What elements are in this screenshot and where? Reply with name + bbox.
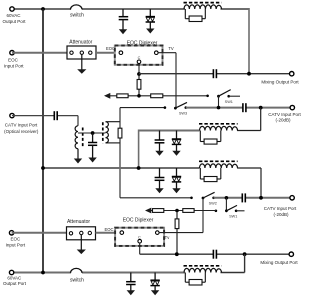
ground G7: [155, 188, 163, 193]
port P1 60VAC Output Port: [2, 7, 26, 24]
attenuator A2 bottom: [67, 219, 96, 240]
switch S5 top arc: [70, 5, 84, 19]
svg-text:SW3: SW3: [179, 111, 187, 115]
diplexer U2 EOC Diplexer bottom: [115, 218, 164, 246]
svg-text:switch: switch: [70, 277, 84, 283]
capacitor C8 series CATV bottom: [242, 193, 245, 202]
node J13 junction mixing bottom: [175, 252, 179, 256]
wire EOC coupling row top left: [120, 107, 165, 109]
inductor L3 coupling winding with core: [103, 122, 120, 144]
svg-text:Mixing Output Port: Mixing Output Port: [261, 80, 299, 85]
switch S6 bottom arc: [70, 268, 84, 283]
resistor R5 across coupling winding: [118, 128, 122, 138]
svg-text:60VAC: 60VAC: [7, 275, 22, 280]
wire TV port to SW3: [158, 53, 176, 108]
arrow attenuator down arrow bottom: [77, 250, 86, 255]
ground G9: [127, 290, 135, 295]
node J15 junction 60VAC rail bottom: [41, 271, 45, 275]
svg-text:CATV Input Port: CATV Input Port: [268, 112, 301, 117]
port P5 CATV Input Port (Optical receiver): [4, 113, 39, 133]
svg-text:(Optical receiver): (Optical receiver): [4, 129, 39, 134]
arrow net arrow left bottom row: [145, 208, 151, 214]
wire transformer tap: [78, 132, 106, 134]
wire 60VAC rail vertical: [42, 9, 44, 273]
capacitor C7 shunt on bus: [155, 168, 165, 189]
svg-text:(-20dB): (-20dB): [273, 212, 289, 217]
arrow attenuator down arrow: [77, 69, 86, 74]
node J12 junction row bottom: [175, 209, 179, 213]
wire CATV -20dB bottom line: [214, 197, 290, 199]
capacitor C10 shunt bottom to ground: [126, 273, 136, 291]
svg-text:Tv: Tv: [165, 235, 171, 240]
node J7 junction tap: [91, 131, 95, 135]
svg-text:EOC: EOC: [11, 237, 22, 242]
resistor R2: [117, 94, 128, 98]
svg-text:Attenuator: Attenuator: [69, 40, 92, 46]
wire CATV top to choke1: [237, 108, 261, 131]
wire resistor row bottom: [151, 210, 216, 212]
ground G3: [155, 151, 163, 156]
resistor R7: [153, 209, 164, 213]
svg-text:SW1: SW1: [225, 100, 233, 104]
inductor L5 power choke bottom (coil with core): [184, 266, 222, 273]
resistor R10 damping across choke bottom: [185, 273, 205, 286]
capacitor C6 shunt at tap: [88, 133, 97, 158]
svg-text:switch: switch: [70, 13, 84, 19]
arrow net arrow left top row: [104, 93, 110, 99]
wire diplexer common down bottom: [140, 243, 290, 254]
svg-text:TV: TV: [168, 46, 174, 51]
diplexer U1 EOC Diplexer top: [115, 40, 163, 64]
port P2 EOC Input Port top: [4, 51, 24, 69]
switch SW2 bottom: [190, 192, 217, 205]
capacitor C1 shunt to ground: [119, 9, 129, 30]
svg-text:EOC: EOC: [8, 57, 19, 62]
attenuator A1: [67, 40, 96, 59]
capacitor C5 series CATV optical: [54, 111, 57, 120]
inductor L2 input transformer winding: [75, 126, 83, 159]
TVS D4 bottom to ground: [150, 273, 159, 291]
port P6 CATV Input Port -20dB bottom: [264, 196, 297, 217]
port P8 Mixing Output Port bottom: [260, 252, 298, 265]
node J8 junction rail bus: [41, 166, 45, 170]
port P9 60VAC Output Port bottom: [3, 270, 27, 286]
svg-text:Output Port: Output Port: [3, 281, 27, 286]
wire attenuator stem bottom: [80, 235, 82, 250]
capacitor C4 shunt on choke1 line: [155, 131, 165, 152]
svg-text:Output Port: Output Port: [2, 19, 26, 24]
wire CATV -20dB top line: [186, 107, 290, 109]
resistor R6 damping across choke2: [200, 168, 221, 182]
inductor L1 choke with core (CATV -20dB top path): [199, 124, 238, 131]
node J10 junction SW1 bottom rise: [225, 196, 229, 200]
resistor R1 vertical top: [137, 74, 141, 96]
svg-text:EOC Diplexer: EOC Diplexer: [127, 40, 158, 46]
wire mixing output top line: [139, 73, 290, 75]
svg-text:Input Port: Input Port: [4, 63, 24, 68]
svg-text:Input Port: Input Port: [6, 242, 26, 247]
switch SW3 top: [164, 102, 188, 115]
node J4 junction row top: [137, 94, 141, 98]
node J5 junction SW1 drop: [217, 106, 221, 110]
wire ground bus: [43, 167, 200, 169]
svg-text:SW2: SW2: [209, 202, 217, 206]
wire diplexer common down: [138, 64, 140, 74]
inductor L4 choke with core (bus): [199, 161, 238, 168]
wire 60VAC bottom line: [12, 272, 185, 274]
node J3 junction choke feed top: [247, 72, 251, 76]
wire EOC coupling vertical: [119, 108, 121, 198]
wire mixing bottom to choke3: [221, 254, 245, 272]
capacitor C2 series mixing top: [213, 69, 216, 78]
resistor R0 damping across choke top: [185, 9, 205, 22]
capacitor C9 series mixing bottom: [213, 250, 216, 259]
node J9 junction choke1 drop bus: [137, 166, 141, 170]
svg-text:EOC Diplexer: EOC Diplexer: [123, 218, 154, 224]
svg-text:60VAC: 60VAC: [7, 13, 22, 18]
svg-text:CATV Input Port: CATV Input Port: [264, 206, 297, 211]
ground G5: [74, 159, 82, 164]
port P4 CATV Input Port -20dB top: [268, 105, 301, 122]
node J1 junction 60VAC rail top: [41, 7, 45, 11]
ground G1: [119, 29, 127, 34]
wire EOC coupling row bottom left: [120, 197, 192, 199]
svg-text:SW1: SW1: [229, 214, 237, 218]
svg-text:CATV Input Port: CATV Input Port: [5, 123, 38, 128]
svg-text:C: C: [138, 236, 141, 240]
capacitor C3 series CATV top: [243, 103, 246, 112]
ground G8: [172, 188, 180, 193]
resistor R8: [183, 209, 194, 213]
svg-text:EOC: EOC: [104, 227, 113, 232]
resistor R9 vertical bottom: [175, 211, 179, 255]
wire choke2 to bottom CATV junction: [237, 168, 261, 198]
TVS D2 on choke1 line: [172, 131, 181, 152]
resistor R4 damping across choke1: [200, 131, 221, 145]
resistor R3: [151, 94, 163, 98]
port P3 Mixing Output Port top: [261, 72, 299, 85]
wire TV port bottom to SW2: [159, 198, 203, 233]
svg-text:EOC: EOC: [106, 46, 115, 51]
port P7 EOC Input Port bottom: [6, 231, 26, 248]
svg-text:Attenuator: Attenuator: [67, 219, 90, 225]
ground G4: [172, 151, 180, 156]
wire attenuator adjust stem: [81, 54, 83, 69]
svg-text:C: C: [138, 56, 141, 60]
TVS D3 on bus: [172, 168, 181, 189]
node J6 junction CATV top: [259, 106, 263, 110]
ground G2: [146, 29, 154, 34]
switch SW1 top: [206, 90, 240, 108]
wire resistor row top: [110, 95, 208, 97]
svg-text:Mixing Output Port: Mixing Output Port: [260, 260, 298, 265]
node J14 junction choke feed bottom: [243, 252, 247, 256]
ground G10: [151, 290, 159, 295]
inductor L0 power choke top (coil with core): [184, 3, 222, 9]
wire attenuator to diplexer: [96, 52, 115, 54]
wire EOC input to attenuator: [12, 52, 67, 54]
TVS D1 surge suppressor to ground: [146, 9, 155, 29]
wire EOC input bottom: [12, 232, 67, 234]
switch SW4 bottom right: [215, 198, 245, 219]
svg-text:(-20dB): (-20dB): [275, 118, 291, 123]
wire attenuator to diplexer bottom: [96, 232, 116, 234]
node J11 junction CATV bottom: [259, 196, 263, 200]
wire CATV optical input: [12, 116, 78, 126]
node J2 junction mixing top: [137, 72, 141, 76]
wire 60VAC top line: [12, 8, 249, 74]
ground G6: [88, 158, 96, 163]
wire choke1 line: [139, 130, 200, 169]
